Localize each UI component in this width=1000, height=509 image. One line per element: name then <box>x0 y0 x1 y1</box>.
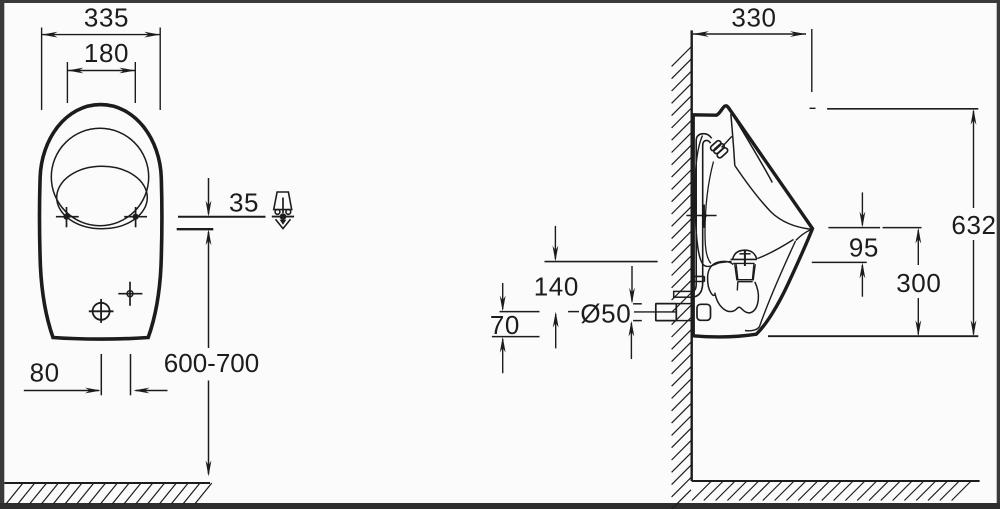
dim 140 arrow upper <box>554 226 556 259</box>
side bowl inner curve <box>705 162 714 264</box>
wall face line <box>691 30 693 481</box>
pipe axis leader dash <box>568 311 579 313</box>
dim 95 lower line <box>812 261 867 263</box>
siphon trap left lobe <box>708 261 734 295</box>
dim 35 upper line <box>178 216 266 218</box>
dim 330 extension right <box>811 29 813 92</box>
dim 180 line <box>67 70 135 72</box>
page border left <box>0 0 4 509</box>
dim 180 extension left <box>66 62 68 103</box>
drain cup <box>735 264 755 280</box>
svg-text:Ø50: Ø50 <box>580 298 631 328</box>
side inner front line <box>735 166 811 230</box>
pipe clamp collar <box>694 276 705 281</box>
floor hatching left <box>6 483 23 504</box>
dim diam50 arrow upper <box>631 266 633 302</box>
small fixing cross <box>127 291 133 297</box>
dim 300 upper line <box>883 227 922 229</box>
fixing hole cross left <box>56 216 79 218</box>
side channel wedge left edge <box>731 114 735 166</box>
dim 140 arrow lower <box>555 314 557 348</box>
svg-text:180: 180 <box>84 38 129 68</box>
floor line right <box>692 480 980 482</box>
siphon trap bottom sweep <box>715 282 759 313</box>
side inner lower front line <box>745 241 796 331</box>
svg-text:632: 632 <box>951 210 996 240</box>
svg-text:70: 70 <box>490 310 520 340</box>
outlet stub line left <box>100 354 102 395</box>
side channel wedge right edge <box>733 116 772 183</box>
fixing hole cross right <box>124 216 147 218</box>
svg-text:330: 330 <box>731 3 776 33</box>
pipe axis line left <box>500 311 540 313</box>
outlet pipe body <box>676 303 691 305</box>
bottom reference line <box>768 335 978 337</box>
dim 180 extension right <box>134 62 136 103</box>
side bowl lower-right curve <box>758 240 794 259</box>
svg-text:80: 80 <box>30 357 60 387</box>
side lip notch inner line <box>796 230 811 241</box>
dim 335 line <box>42 34 161 36</box>
dim 35 lower line <box>177 228 214 230</box>
svg-text:35: 35 <box>229 187 259 217</box>
urinal front outline <box>39 105 161 339</box>
dim 95 arrow upper <box>861 192 863 225</box>
dim diam50 arrow lower <box>630 323 632 359</box>
urinal side outline <box>693 106 812 337</box>
page border top <box>0 0 1000 3</box>
flush supply pipe <box>692 134 712 297</box>
svg-text:140: 140 <box>534 271 579 301</box>
dim 70 arrow lower <box>502 339 504 373</box>
drain cap dome <box>733 250 757 259</box>
svg-text:95: 95 <box>849 233 879 263</box>
mini urinal icon <box>274 192 292 229</box>
svg-text:300: 300 <box>896 268 941 298</box>
page border bottom <box>0 503 1000 509</box>
dim 95 arrow lower <box>861 265 863 297</box>
wall hatching <box>672 47 691 66</box>
dim 70 arrow upper <box>502 283 504 309</box>
front bowl rim circle <box>51 128 148 225</box>
outlet pipe end cap <box>656 304 677 321</box>
level line 140 top <box>545 261 658 263</box>
dim 35 arrow down <box>208 178 210 214</box>
outlet pipe centerline <box>634 311 677 313</box>
wall sleeve <box>674 291 692 297</box>
svg-text:335: 335 <box>84 3 129 33</box>
spreader nozzle <box>710 140 729 159</box>
floor hatching right <box>692 481 712 501</box>
dim 70 lower line <box>492 336 540 338</box>
drain hole symbol <box>93 303 110 320</box>
outlet stub line right <box>130 354 132 395</box>
dim 80 line left <box>24 390 99 392</box>
side fixing cross <box>686 215 716 217</box>
top reference line <box>827 108 978 110</box>
dim 80 line right <box>136 390 168 392</box>
dim 95 upper line <box>828 227 880 229</box>
dim diam50 tick upper <box>633 303 642 305</box>
drain cap flange <box>731 258 757 260</box>
dim 632 line <box>973 111 975 208</box>
dim 330 line <box>693 33 806 35</box>
floor line left <box>4 482 210 484</box>
dim 335 extension left <box>41 28 43 111</box>
dim 300 line <box>917 230 919 265</box>
siphon trap tailpiece <box>736 282 739 291</box>
svg-text:600-700: 600-700 <box>164 348 259 378</box>
outlet pipe flange <box>697 304 711 320</box>
page border right <box>997 0 1000 509</box>
lip level tick <box>810 107 816 109</box>
dim diam50 tick lower <box>633 320 642 322</box>
front basin ellipse <box>57 166 148 229</box>
dim 335 extension right <box>159 28 161 111</box>
side bowl back curve <box>695 136 732 267</box>
side spreader feed line <box>722 136 732 147</box>
dim 600-700 line <box>208 232 210 348</box>
